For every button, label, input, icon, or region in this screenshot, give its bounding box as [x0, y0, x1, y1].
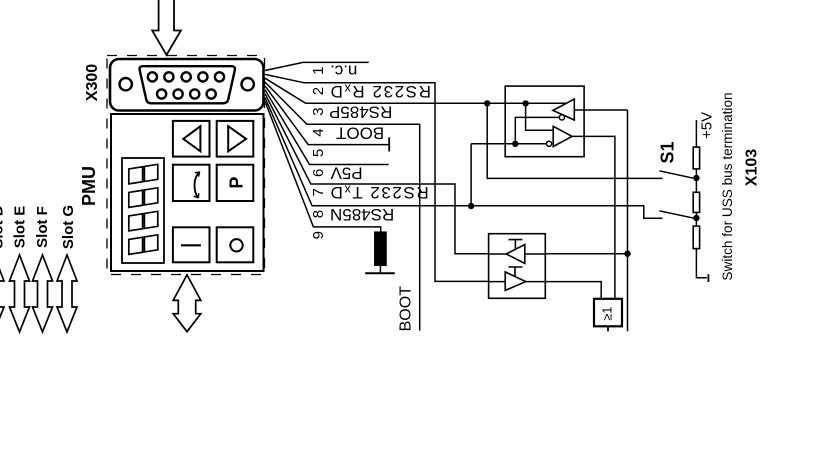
- svg-text:9: 9: [310, 231, 327, 239]
- svg-text:PMU: PMU: [79, 166, 99, 206]
- svg-text:8: 8: [310, 210, 327, 218]
- svg-text:Slot E: Slot E: [12, 206, 29, 249]
- svg-text:P5V: P5V: [330, 164, 363, 183]
- svg-text:X103: X103: [744, 149, 761, 186]
- svg-text:Slot D: Slot D: [0, 205, 7, 248]
- svg-text:BOOT: BOOT: [336, 124, 384, 143]
- svg-text:Slot F: Slot F: [34, 206, 51, 248]
- svg-text:5: 5: [310, 149, 327, 157]
- svg-text:X300: X300: [84, 64, 101, 101]
- svg-text:3: 3: [310, 107, 327, 115]
- svg-text:RS485N: RS485N: [330, 205, 394, 224]
- svg-text:6: 6: [310, 169, 327, 177]
- svg-text:P: P: [226, 177, 246, 189]
- svg-text:Slot G: Slot G: [60, 205, 77, 249]
- svg-text:7: 7: [310, 188, 327, 196]
- svg-text:BOOT: BOOT: [398, 286, 415, 332]
- svg-text:4: 4: [310, 128, 327, 136]
- svg-text:2: 2: [310, 87, 327, 95]
- svg-text:1: 1: [310, 67, 327, 75]
- svg-text:Switch for USS bus termination: Switch for USS bus termination: [720, 92, 735, 280]
- svg-text:≥1: ≥1: [601, 307, 615, 321]
- svg-text:RS485P: RS485P: [329, 103, 392, 122]
- svg-text:+5V: +5V: [699, 112, 716, 139]
- svg-text:n.c.: n.c.: [330, 62, 357, 81]
- svg-text:S1: S1: [658, 141, 678, 163]
